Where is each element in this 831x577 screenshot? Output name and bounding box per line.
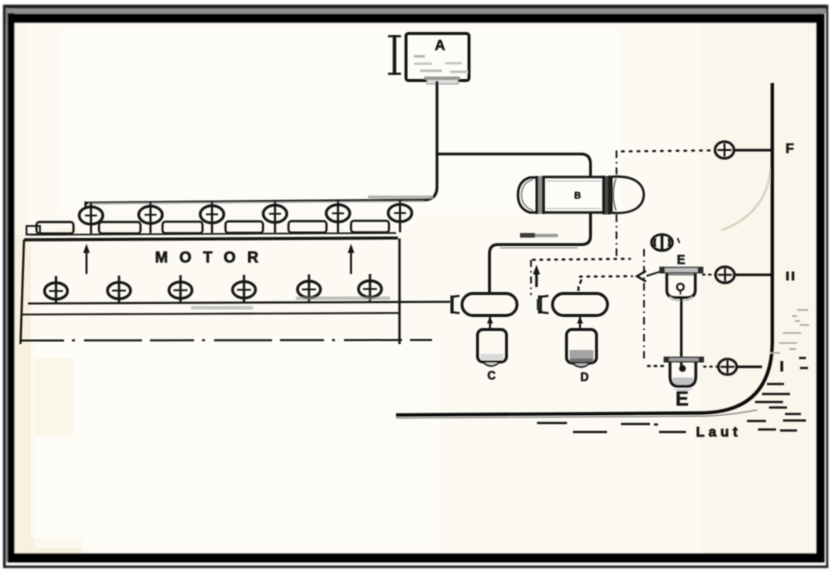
- crankshaft centerline: [20, 339, 432, 342]
- svg-text:MOTOR: MOTOR: [155, 250, 270, 267]
- wave dashes: [537, 358, 808, 432]
- pump D body: [553, 294, 608, 316]
- hull ghost arc: [722, 168, 771, 230]
- pipe end hook: [84, 202, 86, 209]
- sea valve I: [718, 359, 736, 375]
- svg-text:A: A: [435, 38, 446, 54]
- tank A inner smudges: [414, 55, 468, 84]
- svg-text:Laut: Laut: [696, 424, 742, 440]
- flow arrow left: [83, 244, 90, 274]
- top valve 4: [263, 201, 287, 233]
- pipe from A tee to cooler B: [437, 154, 591, 177]
- top valve 2: [139, 202, 163, 234]
- smudge label above pump pipe: [520, 233, 558, 238]
- cylinder head cover 4: [226, 221, 264, 233]
- top valve 5: [326, 200, 350, 232]
- pump C to motor connector arrow: [487, 316, 493, 330]
- cooler B right flange: [604, 176, 610, 215]
- upper strainer float: [677, 284, 684, 295]
- pipe smudge 2: [191, 306, 253, 310]
- cooler B left flange: [537, 176, 544, 214]
- valve I to hull line: [737, 365, 763, 368]
- dash-dot line right of cooler lower: [616, 215, 618, 260]
- lower strainer flange: [664, 357, 704, 362]
- expansion tank A box: [406, 34, 469, 81]
- dashed link dotted line to strainer: [580, 275, 632, 278]
- valve II to hull line: [735, 273, 772, 276]
- dotted suction line to pump D: [533, 259, 630, 260]
- label I: [780, 361, 783, 372]
- strainer inlet symbol: [652, 235, 680, 252]
- cylinder head cover 5: [289, 221, 327, 233]
- link from strainer to arrow: [647, 272, 660, 276]
- engine block top edge: [24, 238, 398, 240]
- pipe echo: [88, 201, 424, 203]
- pump C motor cylinder: [478, 330, 507, 367]
- cylinder head cover 6: [351, 221, 389, 233]
- left end cap block: [27, 226, 41, 235]
- valve II left dots: [703, 274, 716, 276]
- cooler B right end cap: [612, 177, 644, 213]
- hull waterline shadow: [396, 410, 757, 418]
- side valve 4: [233, 275, 256, 303]
- upper strainer flange: [660, 267, 703, 275]
- pipe smudge 1: [296, 297, 390, 301]
- sea valve F: [715, 142, 734, 159]
- pipe from cooler B down to pump C: [490, 213, 591, 294]
- svg-text:D: D: [580, 372, 588, 384]
- upper strainer cup: [667, 274, 696, 302]
- lower strainer cup: [670, 362, 696, 392]
- label II: [788, 272, 794, 281]
- dash-dot drop to pump D flange: [530, 260, 532, 295]
- side valve 1: [45, 276, 68, 304]
- engine block bottom edge: [22, 313, 401, 315]
- sea valve II: [716, 267, 735, 283]
- svg-text:F: F: [786, 140, 795, 156]
- pipe from A down to engine manifold: [85, 81, 437, 203]
- lower strainer pipe end blob: [679, 365, 686, 372]
- pump C inlet flange: [452, 296, 460, 314]
- pump C body: [462, 294, 517, 316]
- top valve 6: [388, 200, 412, 232]
- side valve 6: [359, 274, 382, 302]
- engine block right edge: [398, 239, 400, 345]
- top valve 3: [200, 201, 224, 233]
- svg-text:E: E: [675, 389, 688, 411]
- tank A left flange: [388, 35, 401, 75]
- svg-text:C: C: [487, 371, 495, 383]
- arrowhead toward pump D: [637, 271, 646, 282]
- cylinder head cover 3: [163, 222, 203, 234]
- dots to lower strainer flange: [648, 365, 664, 367]
- cooler B left cap: [518, 178, 536, 213]
- top valve 1: [79, 202, 103, 234]
- valve I left dots: [704, 366, 719, 368]
- gray smudge above manifold: [368, 196, 433, 199]
- dashed drop to pump D top: [578, 280, 581, 294]
- dash-dot line right of cooler upper: [616, 151, 618, 175]
- cylinder head cover 2: [99, 222, 141, 234]
- flow arrow at pump D suction: [533, 265, 540, 287]
- engine block left edge: [21, 240, 25, 344]
- pipe echo line: [500, 247, 578, 249]
- svg-text:E: E: [677, 253, 685, 267]
- cooler B shell: [544, 177, 604, 213]
- valve F to hull line: [734, 149, 772, 152]
- svg-text:B: B: [574, 191, 581, 202]
- strainer connecting pipe: [680, 299, 683, 366]
- pump D motor cylinder: [567, 330, 597, 368]
- cylinder head cover 1: [37, 222, 74, 234]
- flow arrow right: [348, 244, 355, 274]
- engine deck line: [30, 233, 396, 235]
- faint wave marks: [770, 310, 809, 353]
- dash-dot line to lower strainer: [643, 249, 645, 359]
- side valve 3: [169, 275, 192, 303]
- pump D inlet flange: [537, 296, 549, 314]
- side valve 5: [298, 274, 321, 302]
- dotted line to high sea valve F: [622, 150, 713, 151]
- pump D connector arrow: [577, 316, 583, 330]
- ship hull: [396, 83, 772, 415]
- outlet pipe from engine to pump C: [28, 302, 450, 304]
- side valve 2: [108, 276, 131, 304]
